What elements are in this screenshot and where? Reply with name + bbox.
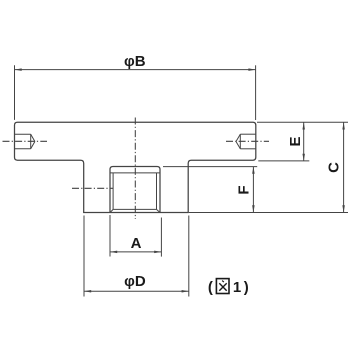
svg-text:(: ( xyxy=(208,279,213,296)
svg-text:A: A xyxy=(131,235,142,252)
svg-text:φD: φD xyxy=(124,273,146,290)
svg-text:F: F xyxy=(236,185,253,194)
svg-text:E: E xyxy=(287,136,304,146)
svg-text:): ) xyxy=(244,279,249,296)
svg-text:C: C xyxy=(326,162,343,173)
svg-text:φB: φB xyxy=(124,53,146,70)
svg-text:1: 1 xyxy=(233,279,241,296)
